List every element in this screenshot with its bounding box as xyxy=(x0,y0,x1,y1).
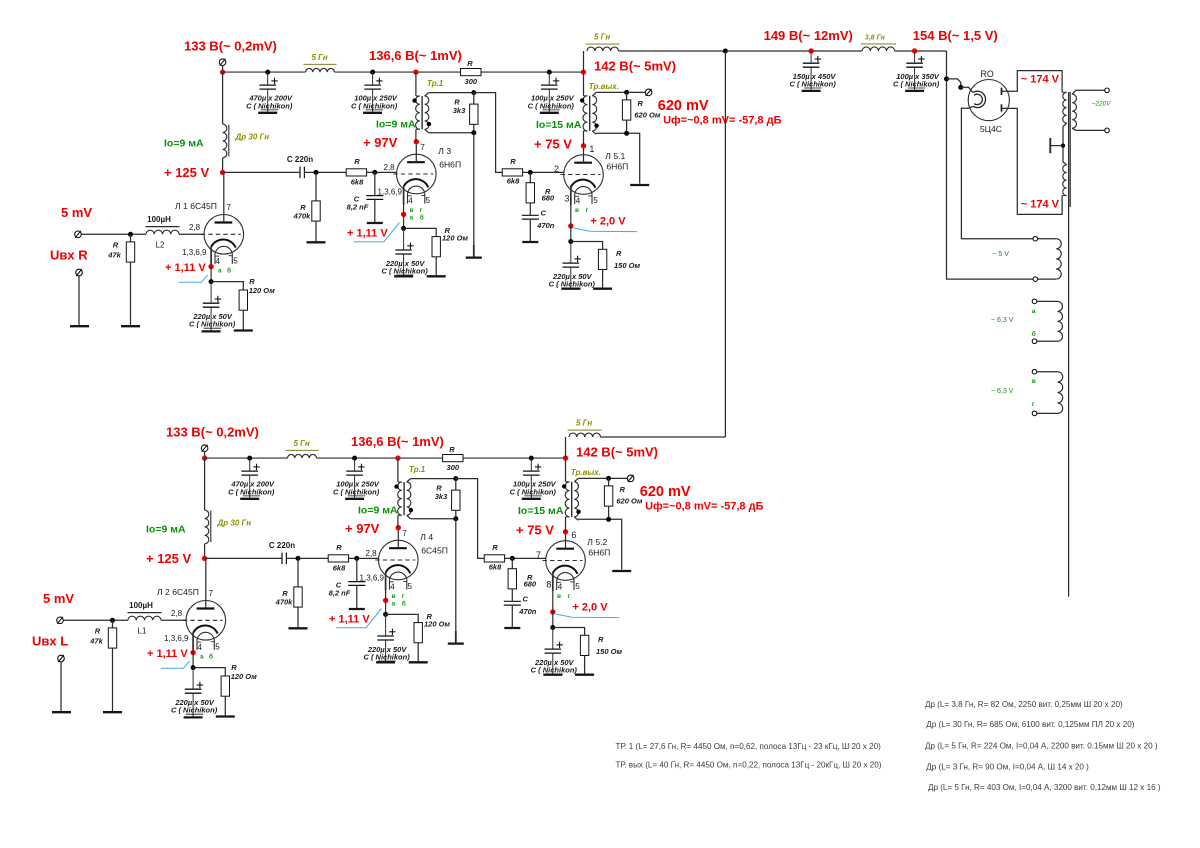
svg-text:5: 5 xyxy=(575,582,580,591)
capacitor C 100µ x 250V (st3) xyxy=(523,470,540,472)
wire rail to 149V node xyxy=(725,50,862,52)
pointer line (blue) stage3 xyxy=(556,614,620,618)
ground of cathode cap xyxy=(202,330,221,332)
svg-text:150 Ом: 150 Ом xyxy=(596,647,623,656)
svg-text:б: б xyxy=(402,599,406,607)
capacitor C 100µ x 250V (st3) xyxy=(541,84,558,86)
ground C8,2nF xyxy=(349,608,365,610)
svg-text:+ 125 V: + 125 V xyxy=(146,551,192,566)
svg-text:5: 5 xyxy=(408,582,413,591)
tube Л 5.2 6Н6П xyxy=(546,541,586,581)
svg-text:3,8 Гн: 3,8 Гн xyxy=(865,35,886,42)
resistor R 680 xyxy=(511,558,513,568)
wire terminal to bus xyxy=(222,66,224,73)
wire 154V down to rectifier filament xyxy=(947,51,1034,279)
choke Др 30 Гн xyxy=(223,124,227,158)
svg-text:Тр.вых.: Тр.вых. xyxy=(571,468,601,477)
ground of C 100µ x 250V (st2) xyxy=(345,498,364,500)
svg-text:149 В(~ 12mV): 149 В(~ 12mV) xyxy=(764,28,853,43)
resistor R 470k xyxy=(315,172,317,201)
svg-text:+ 1,11 V: + 1,11 V xyxy=(147,648,188,660)
ground R150 xyxy=(593,288,612,290)
wire cathode cap lead xyxy=(570,242,572,264)
svg-text:120 Ом: 120 Ом xyxy=(424,620,451,629)
junction input/R47k xyxy=(110,618,115,623)
svg-text:R: R xyxy=(249,277,255,286)
resistor R 620 Ом xyxy=(626,92,628,100)
pointer line (blue) stage2 xyxy=(336,609,382,628)
wire cathode tube1 down xyxy=(192,651,194,668)
node cathode tube3 (red) xyxy=(550,609,555,614)
wire cathode tube1 down xyxy=(210,265,212,282)
svg-text:+ 75 V: + 75 V xyxy=(516,522,554,537)
wire bus after R300 xyxy=(481,71,584,73)
svg-text:100µH: 100µH xyxy=(129,601,153,610)
junction R3k3 bottom xyxy=(453,516,458,521)
svg-text:4: 4 xyxy=(198,643,203,652)
svg-text:Др (L= 3,8 Гн, R= 82 Ом, 2250: Др (L= 3,8 Гн, R= 82 Ом, 2250 вит. 0,25м… xyxy=(925,700,1123,709)
wire R6k8 to tube2 grid xyxy=(349,557,379,559)
wire bus 133V xyxy=(205,457,288,459)
ground of C 470µ x 200V xyxy=(258,112,277,114)
svg-text:5 Гн: 5 Гн xyxy=(576,419,592,428)
resistor R 620 Ом xyxy=(608,478,610,486)
wire 142V node down to Тр.вых xyxy=(565,458,567,482)
svg-text:RO: RO xyxy=(981,69,994,79)
choke Др 30 Гн xyxy=(205,510,209,544)
resistor R 47k xyxy=(112,620,114,628)
ground of cathode cap xyxy=(394,275,413,277)
node 133V (red) xyxy=(202,455,207,460)
wire C220n to R6k8 xyxy=(286,557,328,559)
ground of C 100µ x 350V xyxy=(905,90,924,92)
ground input xyxy=(70,325,89,327)
wire input ground lead xyxy=(78,276,80,325)
wire 142V node up to 5Гн xyxy=(565,437,567,458)
wire Тр.1 secondary bottom xyxy=(411,518,456,520)
svg-text:+ 97V: + 97V xyxy=(345,521,380,536)
wire lower anode to HV bottom xyxy=(1002,108,1063,214)
capacitor C 220µ x 50V xyxy=(395,249,412,251)
node cathode tube3 (red) xyxy=(568,223,573,228)
svg-text:C: C xyxy=(541,209,547,218)
svg-text:136,6 В(~ 1mV): 136,6 В(~ 1mV) xyxy=(369,48,462,63)
wire cathode cap lead xyxy=(403,228,405,250)
svg-text:а: а xyxy=(410,214,414,221)
svg-text:1,3,6,9: 1,3,6,9 xyxy=(164,634,189,643)
ground input xyxy=(52,711,71,713)
svg-text:5 mV: 5 mV xyxy=(43,591,74,606)
junction filament node2 xyxy=(958,85,963,90)
svg-text:г: г xyxy=(402,593,405,600)
svg-text:C ( Nichikon): C ( Nichikon) xyxy=(789,79,836,88)
junction bus/100µ stage2 xyxy=(370,70,375,75)
svg-text:133 В(~ 0,2mV): 133 В(~ 0,2mV) xyxy=(184,39,277,54)
svg-text:C ( Nichikon): C ( Nichikon) xyxy=(531,666,578,675)
svg-text:в: в xyxy=(410,207,414,214)
svg-text:~ 174 V: ~ 174 V xyxy=(1021,198,1060,210)
svg-text:7: 7 xyxy=(402,529,407,538)
svg-text:6k8: 6k8 xyxy=(507,177,520,186)
capacitor C 220µ x 50V xyxy=(377,635,394,637)
wire C 100µ x 250V (st3) lead xyxy=(530,458,532,471)
svg-text:в: в xyxy=(557,593,561,600)
winding ~5V xyxy=(1033,236,1038,241)
wire C 100µ x 350V lead xyxy=(914,51,916,63)
svg-text:7: 7 xyxy=(227,203,232,212)
svg-text:300: 300 xyxy=(447,463,460,472)
capacitor C 100µ x 250V (st2) xyxy=(346,470,363,472)
wire cathode tube3 down xyxy=(570,205,572,242)
wire upper anode to HV top xyxy=(1002,71,1063,93)
junction R470k xyxy=(314,170,319,175)
svg-text:5Ц4С: 5Ц4С xyxy=(980,124,1002,134)
ground R120 stage1 xyxy=(216,715,235,717)
svg-text:+ 97V: + 97V xyxy=(363,135,398,150)
node +97V (red) xyxy=(396,525,401,530)
svg-text:C ( Nichikon): C ( Nichikon) xyxy=(528,101,575,110)
svg-text:Др (L= 5 Гн, R= 224 Ом, I=0,04: Др (L= 5 Гн, R= 224 Ом, I=0,04 А, 2200 в… xyxy=(925,741,1158,750)
junction supply rail split xyxy=(723,49,728,54)
svg-text:R: R xyxy=(336,543,342,552)
wire R3k3 to ground xyxy=(455,519,457,643)
ground R 47k xyxy=(121,325,140,327)
svg-text:5 Гн: 5 Гн xyxy=(294,439,310,448)
capacitor C 150µ x 450V xyxy=(803,62,820,64)
svg-text:Uф=~0,8 mV= -57,8 дБ: Uф=~0,8 mV= -57,8 дБ xyxy=(663,115,781,127)
junction bus/470µ xyxy=(265,70,270,75)
junction R3k3 bottom xyxy=(471,130,476,135)
svg-text:4: 4 xyxy=(558,582,563,591)
ground R150 xyxy=(575,674,594,676)
power transformer HV winding lower xyxy=(1063,165,1067,196)
junction R620 top xyxy=(606,476,611,481)
svg-text:8,2 nF: 8,2 nF xyxy=(347,203,369,212)
svg-text:б: б xyxy=(227,267,231,275)
junction bus/470µ xyxy=(247,456,252,461)
svg-text:154 В(~ 1,5 V): 154 В(~ 1,5 V) xyxy=(913,28,998,43)
resistor R 150 Ом xyxy=(571,242,603,250)
svg-text:7: 7 xyxy=(536,550,541,560)
svg-text:150 Ом: 150 Ом xyxy=(614,261,641,270)
node cathode tube2 (red) xyxy=(401,212,406,217)
resistor R 47k xyxy=(130,234,132,242)
wire choke to +125V node xyxy=(222,158,224,173)
svg-text:5 Гн: 5 Гн xyxy=(312,53,328,62)
resistor R 300 xyxy=(443,455,463,462)
tube Л 3 6Н6П xyxy=(397,154,437,194)
capacitor C 8,2 nF xyxy=(356,558,358,581)
wire Тр.1 secondary top xyxy=(429,92,474,94)
wire coil to grid xyxy=(179,233,204,235)
svg-text:R: R xyxy=(467,59,473,68)
wire bus after 5Гн xyxy=(335,71,461,73)
tube Л 5.1 6Н6П xyxy=(564,155,604,195)
svg-text:Io=9 мА: Io=9 мА xyxy=(164,138,204,150)
rectifier tube RO 5Ц4С xyxy=(968,80,1009,121)
wire Тр.1 secondary to stage3 grid xyxy=(456,479,484,559)
svg-text:Io=9 мА: Io=9 мА xyxy=(146,524,186,536)
node +97V (red) xyxy=(414,139,419,144)
svg-text:6Н6П: 6Н6П xyxy=(588,548,610,558)
svg-text:3: 3 xyxy=(564,194,569,204)
svg-text:C ( Nichikon): C ( Nichikon) xyxy=(363,652,410,661)
junction cathode RC stage2 xyxy=(383,612,388,617)
svg-text:~ 6,3 V: ~ 6,3 V xyxy=(991,317,1014,324)
svg-text:+ 2,0 V: + 2,0 V xyxy=(590,216,626,228)
ground Тр.вых secondary xyxy=(630,184,649,186)
wire 142V node up to 5Гн xyxy=(583,51,585,72)
wire 133V node down to choke xyxy=(222,72,224,124)
svg-text:470n: 470n xyxy=(536,221,555,230)
junction input/R47k xyxy=(128,232,133,237)
svg-text:~ 174 V: ~ 174 V xyxy=(1021,74,1060,86)
svg-text:Uф=~0,8 mV= -57,8 дБ: Uф=~0,8 mV= -57,8 дБ xyxy=(645,501,763,513)
capacitor C 100µ x 250V (st2) xyxy=(364,84,381,86)
svg-text:C ( Nichikon): C ( Nichikon) xyxy=(510,487,557,496)
tube Л 2 6С45П xyxy=(186,601,226,641)
svg-text:R: R xyxy=(492,543,498,552)
wire filament bottom lead to 5V winding xyxy=(961,106,1033,238)
svg-text:+ 1,11 V: + 1,11 V xyxy=(165,262,206,274)
svg-text:в: в xyxy=(575,207,579,214)
wire R6k8 to tube2 grid xyxy=(367,171,397,173)
svg-text:Л 5.2: Л 5.2 xyxy=(587,537,607,547)
wire cathode cap lead xyxy=(385,614,387,636)
ground of C 470µ x 200V xyxy=(240,498,259,500)
svg-text:Io=15 мА: Io=15 мА xyxy=(518,505,564,517)
svg-text:6С45П: 6С45П xyxy=(421,545,448,555)
ground of cathode cap xyxy=(543,674,562,676)
wire 5Гн to supply rail xyxy=(601,436,726,438)
junction R620 bottom xyxy=(624,131,629,136)
wire C 100µ x 250V (st3) lead xyxy=(548,72,550,85)
ground of cathode cap xyxy=(561,288,580,290)
wire C 100µ x 250V (st2) lead xyxy=(354,458,356,471)
wire bus after 5Гн xyxy=(317,457,443,459)
svg-text:Uвх R: Uвх R xyxy=(50,248,88,263)
svg-text:в: в xyxy=(392,593,396,600)
svg-text:2,8: 2,8 xyxy=(189,223,201,232)
capacitor C 470µ x 200V xyxy=(259,84,276,86)
resistor R 6k8 (stage3) xyxy=(502,169,522,176)
winding ~6,3V (в-г) xyxy=(1032,369,1037,374)
svg-text:Др (L= 5 Гн, R= 403 Ом, I=0,04: Др (L= 5 Гн, R= 403 Ом, I=0,04 А, 3200 в… xyxy=(928,783,1161,792)
svg-text:620 mV: 620 mV xyxy=(640,484,691,500)
terminal input ground side xyxy=(76,269,83,276)
svg-text:3k3: 3k3 xyxy=(435,492,448,501)
svg-text:Io=9 мА: Io=9 мА xyxy=(376,119,416,131)
svg-text:L2: L2 xyxy=(156,241,165,250)
svg-text:+ 1,11 V: + 1,11 V xyxy=(347,228,388,240)
svg-text:8: 8 xyxy=(546,580,551,590)
svg-text:R: R xyxy=(638,99,644,108)
terminal 133V xyxy=(201,445,208,452)
svg-text:C ( Nichikon): C ( Nichikon) xyxy=(189,320,236,329)
ground Тр.вых secondary xyxy=(612,570,631,572)
svg-text:620 mV: 620 mV xyxy=(658,98,709,114)
svg-text:142 В(~ 5mV): 142 В(~ 5mV) xyxy=(576,444,658,459)
wire supply rail to channels (vertical) xyxy=(724,51,726,437)
wire anode tube1 xyxy=(223,172,225,222)
svg-text:680: 680 xyxy=(524,580,537,589)
svg-text:6k8: 6k8 xyxy=(489,563,502,572)
ground R120 stage2 xyxy=(409,661,428,663)
wire 3,8Гн to 154V node xyxy=(895,50,947,52)
svg-text:R: R xyxy=(616,249,622,258)
wire Тр.вых secondary bottom xyxy=(578,519,622,569)
wire Тр.вых primary to +75V node xyxy=(565,517,567,532)
terminal primary top xyxy=(1105,88,1110,93)
pointer line (blue) stage1 xyxy=(179,275,208,282)
wire +125V to C220n xyxy=(223,171,300,173)
svg-text:5: 5 xyxy=(426,196,431,205)
wire 136,6V node down to Тр.1 xyxy=(415,72,417,96)
junction cathode RC stage1 xyxy=(209,279,214,284)
svg-text:47k: 47k xyxy=(89,637,103,646)
node +125V (red) xyxy=(202,556,207,561)
wire Тр.1 secondary bottom xyxy=(429,132,474,134)
resistor R 680 xyxy=(529,172,531,182)
wire Тр.вых secondary top to output xyxy=(596,91,645,93)
svg-text:а: а xyxy=(392,600,396,607)
svg-text:47k: 47k xyxy=(107,251,121,260)
svg-text:в: в xyxy=(1032,378,1036,385)
svg-text:470n: 470n xyxy=(518,607,537,616)
junction C8,2nF xyxy=(372,170,377,175)
svg-text:Тр.1: Тр.1 xyxy=(427,79,444,88)
node 136,6V (red) xyxy=(395,455,400,460)
wire C 150µ x 450V lead xyxy=(810,51,812,63)
ground R 47k xyxy=(103,711,122,713)
svg-text:6k8: 6k8 xyxy=(351,177,364,186)
ground R120 stage1 xyxy=(234,329,253,331)
svg-text:Л 2 6С45П: Л 2 6С45П xyxy=(157,587,199,597)
capacitor C 220µ x 50V xyxy=(185,688,202,690)
svg-text:300: 300 xyxy=(465,77,478,86)
svg-text:Др (L= 3 Гн, R= 90 Ом, I=0,04: Др (L= 3 Гн, R= 90 Ом, I=0,04 А, Ш 14 x … xyxy=(926,763,1089,772)
svg-text:L1: L1 xyxy=(138,627,147,636)
wire bus after R300 xyxy=(463,457,566,459)
svg-text:6: 6 xyxy=(571,530,576,540)
wire cathode tube2 down xyxy=(385,591,387,615)
svg-text:а: а xyxy=(218,268,222,275)
svg-text:Др 30 Гн: Др 30 Гн xyxy=(217,518,252,527)
ground C470n xyxy=(522,241,538,243)
node cathode tube2 (red) xyxy=(383,598,388,603)
ground of cathode cap xyxy=(376,661,395,663)
svg-text:Uвх L: Uвх L xyxy=(32,634,68,649)
wire anode tube2 xyxy=(415,142,417,163)
terminal input Uвх R xyxy=(75,231,82,238)
svg-text:2,8: 2,8 xyxy=(384,163,396,172)
ground C8,2nF xyxy=(367,222,383,224)
svg-text:~220V: ~220V xyxy=(1092,101,1112,108)
svg-text:Л 1 6С45П: Л 1 6С45П xyxy=(175,201,217,211)
pointer line (blue) stage1 xyxy=(161,661,190,668)
tube Л 1 6С45П xyxy=(204,215,244,255)
svg-text:R: R xyxy=(354,157,360,166)
power transformer HV winding upper xyxy=(1062,91,1067,93)
svg-text:2: 2 xyxy=(554,164,559,174)
resistor R 6k8 (stage2) xyxy=(346,169,366,176)
ground Тр.1 secondary xyxy=(466,256,482,258)
svg-text:R: R xyxy=(113,241,119,250)
svg-text:ТР. вых (L= 40 Гн, R= 4450 Ом,: ТР. вых (L= 40 Гн, R= 4450 Ом, n=0,22, п… xyxy=(616,761,882,770)
resistor R 150 Ом xyxy=(553,628,585,636)
svg-text:142 В(~ 5mV): 142 В(~ 5mV) xyxy=(594,58,676,73)
svg-text:C ( Nichikon): C ( Nichikon) xyxy=(246,101,293,110)
junction R3k3 top xyxy=(453,476,458,481)
svg-text:~ 5 V: ~ 5 V xyxy=(992,251,1009,258)
terminal input Uвх L xyxy=(57,617,64,624)
wire R6k8 to tube3 grid xyxy=(523,171,564,173)
svg-text:7: 7 xyxy=(420,143,425,152)
ground of C 100µ x 250V (st2) xyxy=(363,112,382,114)
svg-text:1: 1 xyxy=(589,144,594,154)
wire Тр.1 primary to +97V node xyxy=(397,515,399,527)
wire bus 133V xyxy=(223,71,306,73)
junction HV center tap xyxy=(1061,144,1065,148)
svg-text:+ 2,0 V: + 2,0 V xyxy=(572,602,608,614)
node 136,6V (red) xyxy=(413,69,418,74)
svg-text:5 Гн: 5 Гн xyxy=(594,33,610,42)
junction cathode RC stage2 xyxy=(401,226,406,231)
capacitor C 220µ x 50V xyxy=(563,262,580,264)
svg-text:Др (L= 30 Гн, R= 685 Ом, 6100: Др (L= 30 Гн, R= 685 Ом, 6100 вит. 0,125… xyxy=(926,720,1134,729)
ground of cathode cap xyxy=(184,716,203,718)
wire C 470µ x 200V lead xyxy=(267,72,269,85)
wire 5Гн to supply rail xyxy=(619,50,726,52)
svg-text:6Н6П: 6Н6П xyxy=(439,159,461,169)
junction bus/100µ stage3 xyxy=(529,456,534,461)
svg-text:3k3: 3k3 xyxy=(453,106,466,115)
terminal output xyxy=(627,475,634,482)
ground R470k xyxy=(289,627,308,629)
svg-text:2,8: 2,8 xyxy=(171,609,183,618)
wire C220n to R6k8 xyxy=(304,171,346,173)
svg-text:R: R xyxy=(449,445,455,454)
wire anode tube2 xyxy=(397,528,399,549)
svg-text:C ( Nichikon): C ( Nichikon) xyxy=(351,101,398,110)
svg-text:133 В(~ 0,2mV): 133 В(~ 0,2mV) xyxy=(166,425,259,440)
svg-text:470k: 470k xyxy=(275,598,294,607)
svg-text:Io=15 мА: Io=15 мА xyxy=(536,119,582,131)
wire Тр.вых secondary top to output xyxy=(578,477,627,479)
power transformer core xyxy=(1068,92,1070,597)
capacitor C 470µ x 200V xyxy=(241,470,258,472)
svg-text:R: R xyxy=(95,627,101,636)
wire filament top lead xyxy=(961,87,973,92)
svg-text:Л 5.1: Л 5.1 xyxy=(605,151,625,161)
tube Л 4 6С45П xyxy=(379,540,419,580)
terminal 133V xyxy=(219,59,226,66)
wire Тр.вых primary to +75V node xyxy=(583,131,585,146)
svg-text:100µH: 100µH xyxy=(147,215,171,224)
ground of C 150µ x 450V xyxy=(802,90,821,92)
ground of C 100µ x 250V (st3) xyxy=(540,112,559,114)
junction bus/100µ stage3 xyxy=(547,70,552,75)
node 142V (red) xyxy=(563,455,568,460)
node 142V (red) xyxy=(581,69,586,74)
junction filament B+ xyxy=(944,76,949,81)
node +75V (red) xyxy=(563,529,568,534)
wire HV center tap xyxy=(1063,123,1067,165)
svg-text:Др 30 Гн: Др 30 Гн xyxy=(235,132,270,141)
junction R680 xyxy=(528,170,533,175)
terminal primary bottom xyxy=(1105,128,1110,133)
capacitor C 470n xyxy=(522,214,539,216)
